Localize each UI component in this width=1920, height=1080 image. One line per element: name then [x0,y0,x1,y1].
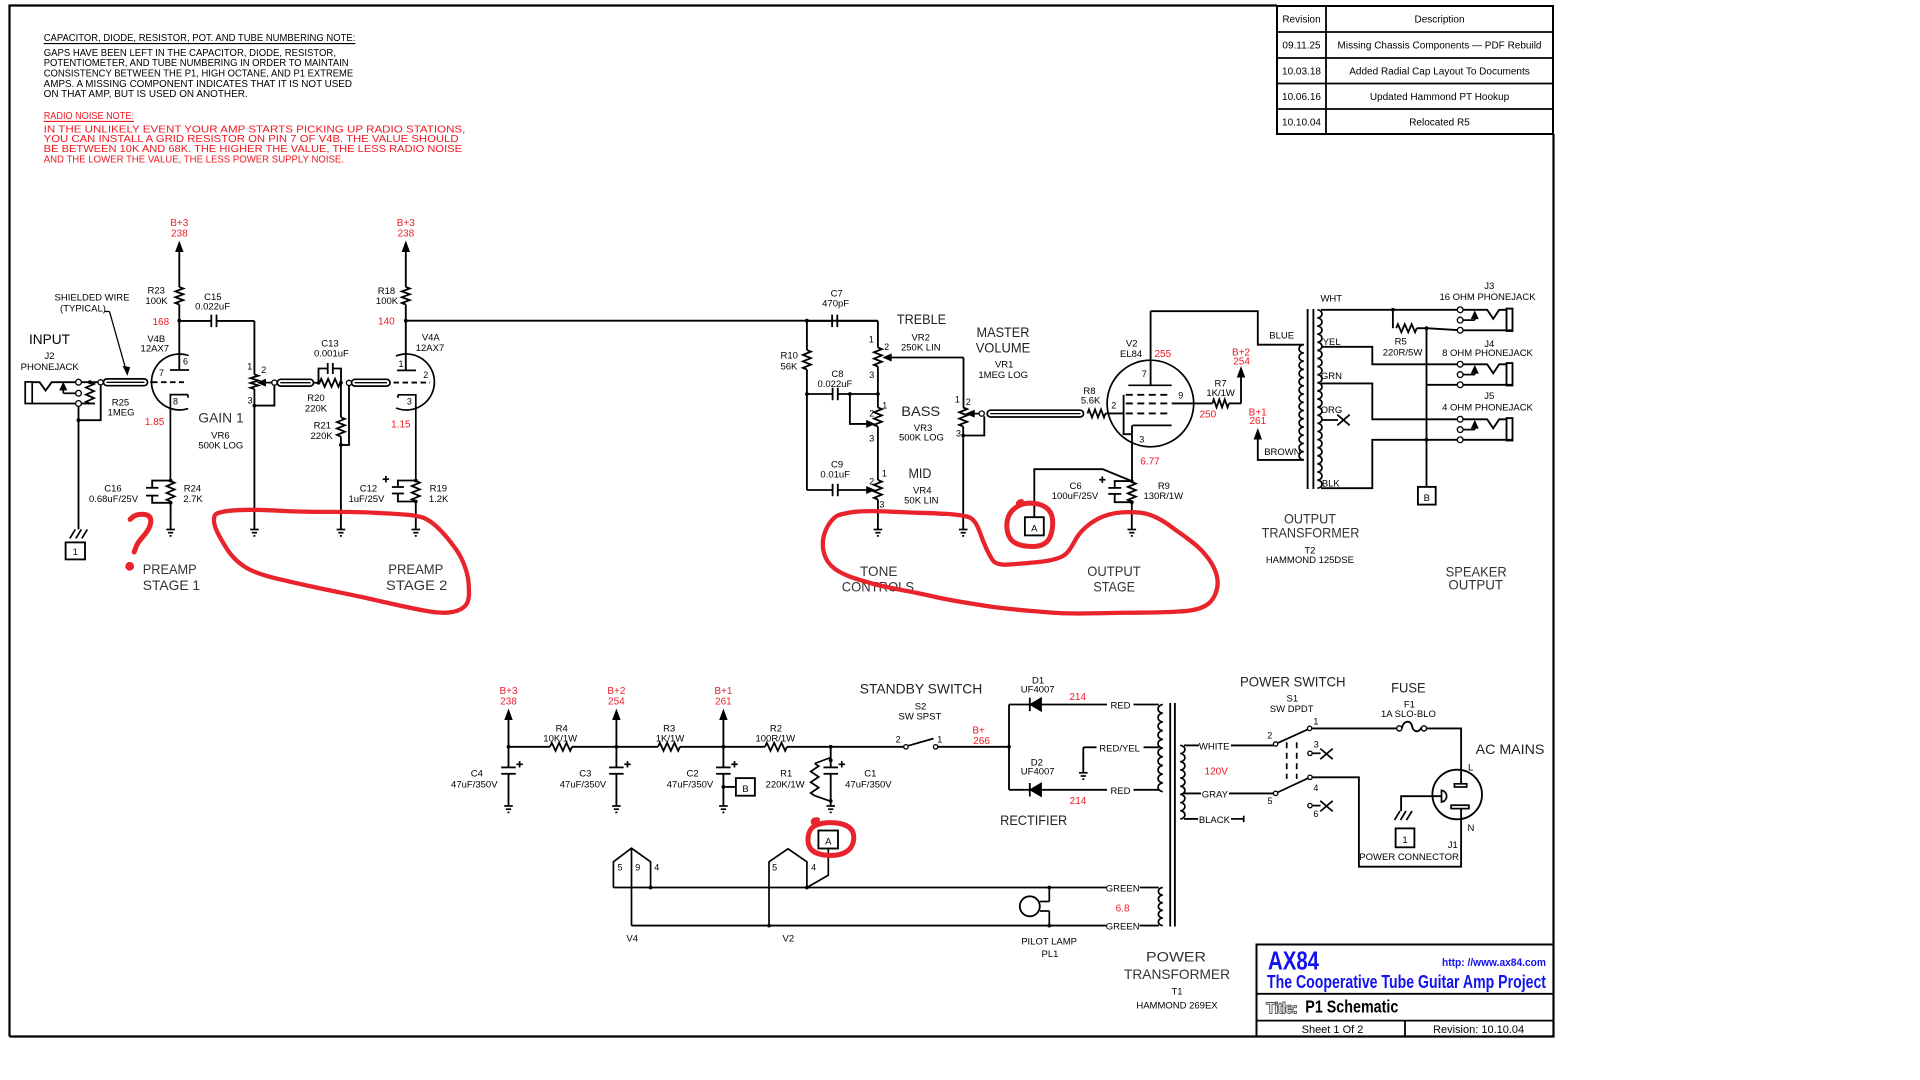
transformer T1 core [1169,703,1171,927]
svg-text:255: 255 [1154,349,1171,360]
svg-text:J1: J1 [1448,840,1458,851]
node 140 junction [405,305,407,321]
wire treble to bass [877,367,879,408]
svg-text:100K: 100K [145,296,168,307]
svg-text:B+2: B+2 [607,686,626,697]
svg-text:3: 3 [879,500,884,510]
svg-text:A: A [1031,524,1038,535]
VR2 wiper wire from master volume [891,357,964,359]
svg-text:120V: 120V [1205,767,1229,778]
svg-text:254: 254 [608,696,625,707]
transformer T1 heater coil [1158,888,1162,926]
wire R9 to ground [1131,502,1133,529]
svg-text:1A SLO-BLO: 1A SLO-BLO [1381,709,1436,720]
net A box (output stage) [1025,517,1044,535]
svg-text:12AX7: 12AX7 [416,343,445,354]
svg-text:10.06.16: 10.06.16 [1282,92,1321,103]
wire S2 to rectifier [938,746,1009,748]
svg-text:RECTIFIER: RECTIFIER [1000,812,1067,828]
capacitor C9 [807,489,832,491]
svg-text:POTENTIOMETER, AND TUBE NUMBER: POTENTIOMETER, AND TUBE NUMBERING IN ORD… [44,58,349,69]
svg-text:B: B [1424,493,1430,504]
VR4 wiper arrow [867,487,875,493]
svg-text:1: 1 [937,734,942,744]
svg-text:BLUE: BLUE [1269,331,1294,342]
resistor R7 [1212,399,1229,407]
svg-text:1: 1 [398,359,403,369]
T1 GRAY lead [1184,792,1201,794]
svg-text:3: 3 [869,434,874,444]
svg-text:9: 9 [1178,390,1183,400]
diode D1 [1009,704,1030,706]
svg-text:261: 261 [1249,416,1266,427]
svg-text:J3: J3 [1484,281,1494,292]
svg-text:1: 1 [73,547,78,558]
ground (R24) [166,529,175,531]
heater symbol V2 [769,849,807,926]
svg-text:168: 168 [152,317,169,328]
svg-text:0.001uF: 0.001uF [314,349,349,360]
ground (VR1) [959,529,968,531]
T2 GRN tap wire [1321,383,1457,419]
svg-text:BASS: BASS [901,403,940,419]
svg-text:5: 5 [1267,796,1272,806]
svg-text:L: L [1468,762,1473,773]
node R20 right [339,381,343,385]
svg-text:RADIO NOISE NOTE:: RADIO NOISE NOTE: [44,111,134,122]
svg-text:3: 3 [1314,740,1319,750]
svg-text:R5: R5 [1395,336,1407,347]
wire fuse to plug L [1427,728,1462,783]
svg-text:C2: C2 [687,769,699,780]
capacitor C15 [179,320,211,322]
svg-text:OUTPUT: OUTPUT [1448,577,1503,593]
svg-text:V4A: V4A [422,333,441,344]
ground (R19) [412,529,421,531]
svg-text:GRN: GRN [1321,371,1342,382]
J3 switch contact [1463,319,1475,321]
mid pot VR4 [874,480,882,499]
svg-text:100K: 100K [376,296,399,307]
svg-text:T1: T1 [1171,987,1182,998]
node C8 left [805,392,809,396]
svg-text:1: 1 [955,395,960,405]
capacitor C16 [152,481,170,488]
V2 plate [1150,311,1152,385]
rectifier branch wire [1008,705,1010,790]
svg-text:6: 6 [183,357,188,367]
svg-text:(TYPICAL): (TYPICAL) [60,304,106,315]
svg-text:7: 7 [1142,369,1147,379]
S1 coupling dashes [1286,742,1288,779]
shielded wire capsule (input) [104,379,148,386]
J4 sleeve wire from bus [1427,384,1458,386]
svg-text:C12: C12 [360,484,377,495]
capacitor C7 [807,320,832,322]
svg-text:220K: 220K [311,431,334,442]
svg-text:ON THAT AMP, BUT IS USED ON AN: ON THAT AMP, BUT IS USED ON ANOTHER. [44,89,248,100]
svg-text:238: 238 [397,228,414,239]
T2 WHT tap wire [1321,309,1393,311]
svg-text:2: 2 [261,365,266,375]
pilot lamp PL1 [1020,896,1040,916]
chassis pin box 1 (input) [66,542,85,559]
svg-text:266: 266 [973,736,990,747]
S1 pole 2 [1308,775,1312,779]
resistor R2 [765,743,787,751]
svg-text:C4: C4 [471,769,483,780]
V2 grid bracket [1124,395,1132,434]
red annotation circle preamp stage 2 [214,510,469,613]
node bass wiper tap [848,392,852,396]
svg-text:2: 2 [884,342,889,352]
svg-text:238: 238 [500,696,517,707]
svg-text:238: 238 [171,228,188,239]
svg-text:CAPACITOR, DIODE, RESISTOR, PO: CAPACITOR, DIODE, RESISTOR, POT. AND TUB… [44,33,356,44]
shielded wire capsule (VR1 to R8) [987,410,1083,417]
svg-text:EL84: EL84 [1120,349,1142,360]
diode D2 [1009,789,1030,791]
svg-text:STAGE 2: STAGE 2 [386,577,448,593]
svg-text:214: 214 [1069,692,1086,703]
svg-text:V2: V2 [782,934,794,945]
svg-text:WHITE: WHITE [1199,741,1230,752]
svg-text:HAMMOND 269EX: HAMMOND 269EX [1136,1001,1218,1012]
svg-text:Revision: 10.10.04: Revision: 10.10.04 [1433,1024,1524,1036]
ground (C1) [826,805,835,807]
transformer T2 primary coil [1299,345,1304,460]
svg-text:6.77: 6.77 [1140,456,1160,467]
T2 ORG tap stub [1321,419,1338,421]
chassis ground (mains) [1395,811,1401,820]
svg-text:TONE: TONE [860,563,897,579]
V4A grid [394,382,431,384]
capacitor C6 [1114,481,1132,488]
svg-text:C1: C1 [864,769,876,780]
svg-text:RED: RED [1110,701,1130,712]
V4B plate [170,369,189,371]
T2 BLK tap wire [1321,440,1457,488]
svg-text:220R/5W: 220R/5W [1383,348,1423,359]
svg-text:5: 5 [772,863,777,873]
svg-text:PREAMP: PREAMP [143,561,197,577]
ground (R9) [1128,529,1137,531]
svg-text:Title:: Title: [1266,1001,1298,1018]
svg-text:R19: R19 [430,484,447,495]
red annotation question mark [130,514,151,552]
svg-text:500K LOG: 500K LOG [198,441,243,452]
svg-text:56K: 56K [780,362,798,373]
svg-text:0.022uF: 0.022uF [195,302,230,313]
svg-text:RED/YEL: RED/YEL [1099,743,1140,754]
power connector pin box 1 [1396,828,1415,847]
phonejack J4 [1457,361,1463,367]
svg-text:POWER SWITCH: POWER SWITCH [1240,674,1346,690]
svg-text:9: 9 [635,863,640,873]
ground (R21) [337,529,346,531]
svg-text:214: 214 [1070,796,1087,807]
svg-text:2: 2 [1267,731,1272,741]
svg-text:The Cooperative Tube Guitar Am: The Cooperative Tube Guitar Amp Project [1267,972,1546,992]
svg-text:10.10.04: 10.10.04 [1282,118,1321,129]
svg-text:2: 2 [1111,401,1116,411]
svg-text:POWER: POWER [1146,949,1206,965]
svg-text:1MEG: 1MEG [108,407,135,418]
svg-text:R21: R21 [314,421,331,432]
svg-text:4: 4 [654,863,659,873]
svg-text:A: A [825,837,832,848]
svg-text:HAMMOND 125DSE: HAMMOND 125DSE [1266,555,1354,566]
svg-text:Revision: Revision [1282,15,1320,26]
T2 YEL tap wire [1321,347,1457,365]
svg-text:UF4007: UF4007 [1021,767,1055,778]
transformer T2 core [1307,309,1309,489]
capacitor C8 [807,393,832,395]
svg-text:POWER CONNECTOR: POWER CONNECTOR [1359,852,1459,863]
shielded wire capsule (R20 to V4A) [352,379,390,386]
svg-text:BLK: BLK [1322,479,1341,490]
ground (VR6) [250,529,259,531]
svg-text:3: 3 [869,370,874,380]
svg-text:1K/1W: 1K/1W [1206,388,1235,399]
svg-text:1.15: 1.15 [391,419,411,430]
resistor R9 [1130,479,1134,483]
svg-text:FUSE: FUSE [1391,680,1426,696]
V2 cathode [1133,424,1172,426]
svg-text:TRANSFORMER: TRANSFORMER [1262,525,1360,541]
svg-text:STAGE: STAGE [1093,579,1135,595]
svg-text:Updated Hammond PT Hookup: Updated Hammond PT Hookup [1370,92,1510,103]
svg-text:N: N [1467,823,1474,834]
svg-text:STANDBY SWITCH: STANDBY SWITCH [860,681,983,697]
ac plug J1 [1432,770,1482,820]
phonejack J3 [1457,307,1463,313]
capacitor C4 [508,747,510,768]
V4B cathode [170,395,188,481]
svg-text:8 OHM PHONEJACK: 8 OHM PHONEJACK [1442,348,1533,359]
resistor R5 [1392,310,1394,328]
svg-text:1: 1 [882,469,887,479]
common bus wire [1426,328,1428,487]
svg-text:0.68uF/25V: 0.68uF/25V [89,494,139,505]
J2 shield ground wire [78,406,80,529]
svg-text:UF4007: UF4007 [1021,685,1055,696]
VR6 lower wire and shield tie [253,389,255,530]
resistor R1 parallel C1 [830,747,832,758]
svg-text:3: 3 [956,429,961,439]
svg-text:Added Radial Cap Layout To Doc: Added Radial Cap Layout To Documents [1349,67,1529,78]
net B box (power) [722,785,726,789]
svg-text:B+3: B+3 [397,218,416,229]
capacitor C3 [615,747,617,768]
svg-text:AC MAINS: AC MAINS [1476,741,1545,757]
svg-text:Missing Chassis Components — P: Missing Chassis Components — PDF Rebuild [1338,41,1542,52]
svg-text:AND THE LOWER THE VALUE, THE L: AND THE LOWER THE VALUE, THE LESS POWER … [44,155,344,166]
svg-text:ORG: ORG [1321,405,1343,416]
transformer T2 secondary coil [1317,310,1322,488]
resistor R23 [175,287,183,305]
net A wire to heater [807,849,828,888]
svg-text:09.11.25: 09.11.25 [1282,41,1321,52]
svg-text:47uF/350V: 47uF/350V [451,779,498,790]
VR6 wiper [265,382,272,384]
bass pot VR3 [874,408,882,427]
S1 pole 1 [1273,742,1277,746]
svg-text:10K/1W: 10K/1W [543,734,577,745]
svg-text:BROWN: BROWN [1264,447,1301,458]
svg-text:261: 261 [715,696,732,707]
wire mid to ground [877,500,879,530]
node R20 left [317,381,321,385]
resistor R24 [169,479,173,483]
svg-text:Relocated R5: Relocated R5 [1409,118,1470,129]
svg-text:100R/1W: 100R/1W [755,734,795,745]
red annotation circle around net A (output stage) [1007,502,1053,547]
svg-text:R23: R23 [147,285,164,296]
svg-text:0.01uF: 0.01uF [820,470,850,481]
B+ rail wire [509,746,551,748]
R21 lower node and shield tie [340,437,342,530]
svg-text:R1: R1 [780,769,792,780]
svg-text:J2: J2 [44,351,54,362]
ground (C2) [719,805,728,807]
title block [1257,945,1554,1037]
S1 contact 6 no-connect [1308,803,1312,807]
V2 grids [1126,394,1172,396]
wire bass to mid [877,427,879,481]
svg-text:B+3: B+3 [499,686,518,697]
svg-text:12AX7: 12AX7 [141,343,170,354]
svg-text:4: 4 [811,863,816,873]
wire V2 plate to OT blue [1151,311,1304,345]
svg-text:TREBLE: TREBLE [897,311,946,327]
svg-text:16 OHM PHONEJACK: 16 OHM PHONEJACK [1439,292,1536,303]
gain pot VR6 [253,321,255,375]
master volume pot VR1 [963,358,965,408]
svg-text:GRAY: GRAY [1202,790,1229,801]
svg-text:3: 3 [247,396,252,406]
wire plate V4B [178,321,180,370]
net A box (power) [818,831,838,849]
svg-text:1MEG LOG: 1MEG LOG [978,370,1028,381]
shield terminal circle [98,380,103,385]
V4A cathode [398,395,416,481]
svg-text:220K: 220K [305,404,328,415]
svg-text:BLACK: BLACK [1199,815,1231,826]
svg-text:1: 1 [882,401,887,411]
wire S1 pin4 to plug N [1312,777,1461,866]
resistor R21 [340,383,342,418]
svg-text:3: 3 [407,397,412,407]
V4B grid [152,381,184,383]
V4A plate bar [397,369,416,371]
T1 BLACK lead [1184,818,1198,820]
svg-text:R24: R24 [184,484,201,495]
svg-text:PILOT LAMP: PILOT LAMP [1021,937,1077,948]
node C7 junction [805,319,809,323]
chassis ground (input) [70,529,76,538]
svg-text:YEL: YEL [1323,337,1341,348]
svg-text:MASTER: MASTER [977,324,1030,340]
svg-text:B+1: B+1 [714,686,733,697]
svg-text:VR1: VR1 [995,359,1013,370]
svg-text:47uF/350V: 47uF/350V [845,779,892,790]
svg-text:Description: Description [1414,15,1464,26]
svg-text:220K/1W: 220K/1W [766,779,805,790]
net A wire to cathode [1034,469,1132,517]
red annotation circle around net A (power) [808,820,854,856]
resistor R19 [414,479,418,483]
phonejack J2 [25,382,32,404]
red annotation circle tone controls output stage [823,511,1218,613]
svg-text:SW SPST: SW SPST [899,712,942,723]
wire plate node to C7 [406,320,878,322]
power net B+2 arrow [1229,402,1241,404]
svg-text:SHIELDED WIRE: SHIELDED WIRE [55,293,130,304]
svg-text:2: 2 [869,409,874,419]
net B box (speaker common) [1418,487,1436,505]
ground (C3) [612,805,621,807]
J2 switch contact [62,390,64,394]
svg-text:47uF/350V: 47uF/350V [667,779,714,790]
resistor R20 [320,379,341,387]
svg-text:http: //www.ax84.com: http: //www.ax84.com [1442,957,1546,969]
svg-text:GAIN 1: GAIN 1 [198,410,244,426]
svg-text:PHONEJACK: PHONEJACK [21,362,80,373]
svg-text:4 OHM PHONEJACK: 4 OHM PHONEJACK [1442,402,1533,413]
svg-text:250K LIN: 250K LIN [901,343,941,354]
svg-text:1.85: 1.85 [145,417,165,428]
capacitor C2 [722,747,724,768]
svg-text:MID: MID [908,465,931,481]
svg-text:1uF/25V: 1uF/25V [348,494,385,505]
svg-text:Sheet 1 Of 2: Sheet 1 Of 2 [1302,1024,1364,1036]
svg-text:100uF/25V: 100uF/25V [1052,491,1099,502]
ground (C4) [504,805,513,807]
svg-text:B+: B+ [972,726,985,737]
svg-text:PL1: PL1 [1042,949,1059,960]
heater symbol V4 [613,848,650,887]
resistor R10 [806,321,808,350]
svg-text:RED: RED [1110,786,1130,797]
transformer T1 primary coil [1180,745,1185,819]
tube V4A triode [396,354,434,410]
svg-text:1K/1W: 1K/1W [656,734,685,745]
svg-text:6.8: 6.8 [1116,904,1130,915]
svg-text:140: 140 [378,317,395,328]
svg-text:J5: J5 [1484,391,1494,402]
svg-text:2: 2 [423,370,428,380]
treble pot VR2 [877,321,879,348]
J4 switch contact [1463,374,1475,376]
svg-text:OUTPUT: OUTPUT [1087,563,1141,579]
svg-text:1: 1 [247,362,252,372]
svg-text:5: 5 [617,863,622,873]
transformer T1 HV secondary coil [1158,705,1163,792]
svg-text:S1: S1 [1286,693,1298,704]
svg-text:250: 250 [1199,410,1216,421]
no-connect X (ORG) [1337,415,1349,426]
svg-text:C16: C16 [104,484,121,495]
svg-text:3: 3 [1139,435,1144,445]
svg-text:1.2K: 1.2K [429,494,449,505]
svg-text:V4: V4 [626,934,638,945]
svg-text:1: 1 [1402,835,1407,846]
svg-text:130R/1W: 130R/1W [1143,491,1183,502]
T1 WHITE lead [1184,744,1199,746]
svg-text:2: 2 [869,477,874,487]
svg-text:C3: C3 [579,769,591,780]
